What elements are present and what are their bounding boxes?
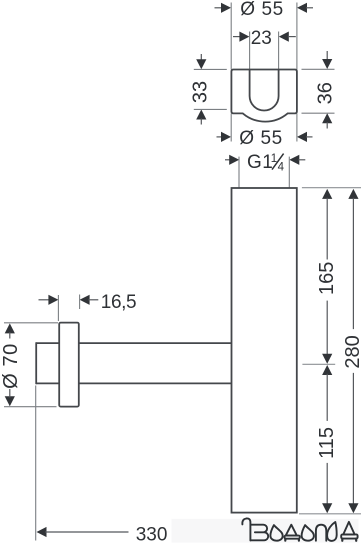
logo glyph 1: hook stem xyxy=(242,518,250,540)
svg-text:36: 36 xyxy=(314,82,336,104)
dim 330: ext line vertical xyxy=(35,386,37,541)
dim Ø55 mid: left arrowhead xyxy=(221,132,231,142)
logo glyph 4: triangle on plinth xyxy=(286,525,297,536)
dim Ø70: top tail xyxy=(9,332,11,338)
svg-text:G: G xyxy=(247,152,262,173)
dim 33: ext line top xyxy=(194,68,227,70)
dim 36: bottom tail xyxy=(326,122,328,128)
bracket U cutout xyxy=(250,70,279,111)
ext line right x=297 top xyxy=(296,3,298,70)
ext line x=249.6 xyxy=(249,32,251,70)
dim 33: top tail xyxy=(200,54,202,61)
dim 330: arrowhead (left) xyxy=(37,527,47,537)
logo glyph 8: large triangle on plinth xyxy=(343,522,354,535)
dim 115: bottom line xyxy=(326,463,328,505)
dim 36: ext line top xyxy=(302,68,335,70)
bracket escutcheon outline xyxy=(231,70,297,122)
dim Ø70: bottom tail xyxy=(9,389,11,398)
dim Ø55 mid: right tail xyxy=(306,136,313,138)
svg-text:115: 115 xyxy=(316,427,338,459)
dim 36: bottom arrowhead (up) xyxy=(322,113,332,123)
dim Ø70: ext line bottom xyxy=(4,406,57,408)
dim 16,5: ext line left xyxy=(57,295,59,321)
dim 36: top tail xyxy=(326,51,328,61)
ext line y=513.8 right xyxy=(299,513,361,515)
dim Ø55 top: right arrowhead xyxy=(297,3,307,13)
dim 165: bottom line xyxy=(326,301,328,356)
dim 280: top arrowhead (up) xyxy=(348,189,358,199)
ext line left x=231 mid xyxy=(230,114,232,142)
dim 16,5: right arrowhead xyxy=(80,295,90,305)
svg-text:Ø 55: Ø 55 xyxy=(240,0,284,20)
dim 165: top line xyxy=(326,198,328,260)
dim 16,5: left arrowhead xyxy=(48,295,58,305)
logo glyph 2: epsilon-3 shape xyxy=(250,525,268,541)
dim 23: left arrowhead xyxy=(239,32,249,42)
pipe top line (flange to body) xyxy=(79,342,232,344)
svg-text:165: 165 xyxy=(316,262,338,295)
dim G1¼: right tail xyxy=(298,159,305,161)
dim 16,5: left tail xyxy=(39,299,51,301)
dim Ø55 top: left arrowhead xyxy=(221,3,231,13)
pipe bottom line (stub left of flange) xyxy=(36,382,59,384)
ext line y=187.7 right xyxy=(302,187,361,189)
dim 115: top line xyxy=(326,374,328,421)
ext line x=239 G xyxy=(238,157,240,188)
pipe bottom line (flange to body) xyxy=(79,382,232,384)
pipe left end xyxy=(35,342,37,384)
dim 115: bottom arrowhead (down) xyxy=(322,503,332,513)
dim Ø55 top: left tail xyxy=(215,7,223,9)
dim 280: top line xyxy=(352,198,354,329)
svg-text:16,5: 16,5 xyxy=(101,292,136,313)
svg-text:280: 280 xyxy=(342,335,361,368)
svg-text:Ø 70: Ø 70 xyxy=(0,343,22,389)
svg-text:4: 4 xyxy=(278,162,285,174)
dim 33: bottom arrowhead (up) xyxy=(196,110,206,120)
dim 33: ext line bottom xyxy=(194,108,227,110)
dim 165: top arrowhead (up) xyxy=(322,189,332,199)
dim 33: bottom tail xyxy=(200,118,202,124)
dim 280: bottom line xyxy=(352,373,354,505)
hansgrohe logo (rotated 180°), drawn as glyph paths xyxy=(242,518,357,540)
dim 33: top arrowhead (down) xyxy=(196,59,206,69)
dim 16,5: ext line right xyxy=(79,295,81,310)
ext line y=364.3 right xyxy=(302,363,335,365)
logo background panel xyxy=(172,519,359,543)
pipe top line (stub left of flange) xyxy=(36,342,59,344)
dim Ø70: bottom arrowhead (down) xyxy=(5,396,15,406)
dim 36: top arrowhead (down) xyxy=(322,59,332,69)
ext line right x=297 mid xyxy=(296,114,298,142)
dim 23: left tail xyxy=(233,36,241,38)
logo glyph 6: arch xyxy=(316,525,326,541)
dim 23: right tail xyxy=(288,36,296,38)
logo glyph 5: teardrop xyxy=(302,525,314,541)
dim 115: top arrowhead (up) xyxy=(322,365,332,375)
dim Ø70: top arrowhead (up) xyxy=(5,323,15,333)
dim 280: bottom arrowhead (down) xyxy=(348,503,358,513)
dim Ø55 top: right tail xyxy=(306,7,313,9)
dim Ø55 mid: right arrowhead xyxy=(297,132,307,142)
dim 330: tail xyxy=(45,531,128,533)
ext line left x=231 top xyxy=(230,3,232,70)
logo glyph 3: teardrop xyxy=(270,525,282,541)
wall flange xyxy=(59,323,79,407)
dim Ø70: ext line top xyxy=(4,322,58,324)
svg-text:Ø 55: Ø 55 xyxy=(239,128,283,149)
dim Ø55 mid: left tail xyxy=(217,136,223,138)
dim G1¼: left arrowhead xyxy=(229,155,239,165)
svg-text:33: 33 xyxy=(190,81,212,103)
dim G1¼: left tail xyxy=(225,159,231,161)
ext line x=289.3 G xyxy=(288,157,290,188)
svg-text:330: 330 xyxy=(136,524,168,545)
ext line x=278.6 xyxy=(278,32,280,70)
dim 16,5: right tail xyxy=(88,299,98,301)
siphon body rectangle xyxy=(232,188,297,513)
dim 165: bottom arrowhead (down) xyxy=(322,354,332,364)
dim 23: right arrowhead xyxy=(279,32,289,42)
logo glyph 7: drop with straight right side xyxy=(327,522,337,541)
dim G1¼: right arrowhead xyxy=(289,155,299,165)
dim 36: ext line bottom xyxy=(302,112,335,114)
svg-text:23: 23 xyxy=(251,28,272,49)
